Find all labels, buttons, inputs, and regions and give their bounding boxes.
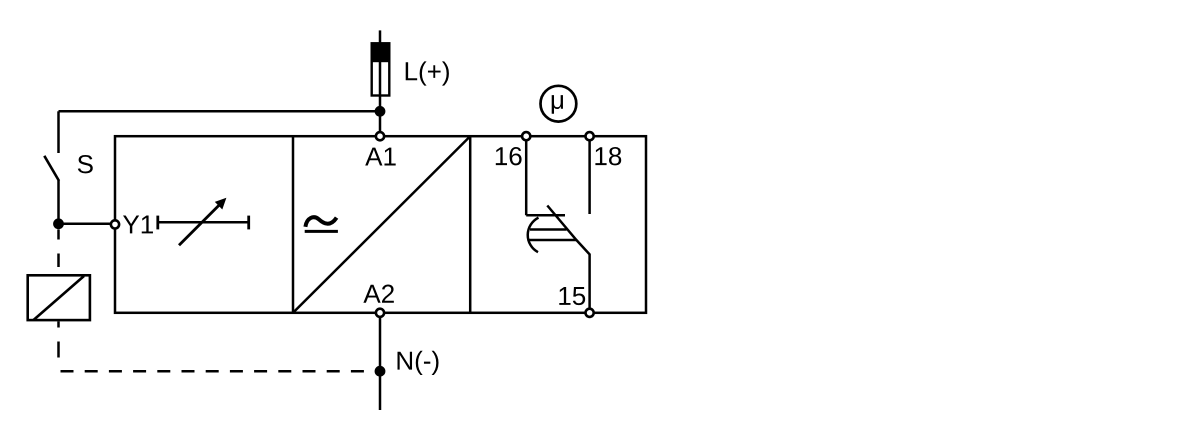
wire from A2 to node N and stub below: [379, 313, 382, 410]
label 18: [595, 147, 621, 165]
label A1: [365, 148, 395, 166]
dashed wire from node Y down to sensor: [57, 230, 60, 275]
contact 18 lead: [588, 136, 591, 214]
node N junction dot: [375, 366, 386, 377]
wire down to switch S: [57, 111, 60, 153]
relay box outline: [115, 136, 646, 313]
variable resistor right tick: [247, 216, 250, 230]
terminal 18 circle: [586, 132, 594, 140]
AC/DC symbol tilde: [305, 217, 336, 227]
wire from switch to node Y: [57, 181, 60, 224]
label S: [78, 155, 93, 173]
dashed wire from sensor down: [57, 322, 60, 372]
label N(-): [398, 351, 439, 375]
variable resistor arrow shaft: [179, 205, 220, 246]
fuse F1 top lead wire: [379, 30, 382, 44]
terminal 15 circle: [586, 309, 594, 317]
variable resistor left tick: [156, 216, 159, 230]
contact 16 fixed contact line: [526, 214, 565, 217]
fuse F1 body outline: [372, 43, 390, 95]
terminal 16 circle: [522, 132, 530, 140]
sensor B1 diagonal: [34, 276, 85, 320]
label 15: [559, 287, 585, 305]
terminal A1 circle: [376, 132, 384, 140]
variable resistor arrowhead: [215, 198, 227, 210]
diagonal of power section: [293, 136, 470, 313]
delay device arc: [528, 218, 539, 253]
fuse F1 filled head: [371, 42, 391, 62]
label Y1: [123, 216, 153, 234]
delay device hatch line 2: [529, 239, 576, 242]
label L(+): [406, 61, 449, 85]
terminal Y1 circle: [111, 220, 119, 228]
AC/DC symbol underline: [305, 230, 338, 233]
wire from node L to switch branch: [59, 110, 381, 113]
switch S blade: [44, 156, 59, 181]
label A2: [363, 285, 393, 303]
variable resistor horizontal line: [158, 221, 249, 224]
terminal A2 circle: [376, 309, 384, 317]
sensor B1 box: [28, 275, 90, 320]
contact 16 lead: [525, 136, 528, 215]
fuse F1 center wire through body down to node L: [379, 61, 382, 133]
timing function circle: [541, 86, 577, 122]
node Y junction dot: [53, 218, 64, 229]
label 16: [496, 147, 522, 165]
dashed wire from sensor to node N: [61, 370, 376, 373]
wire from node Y to terminal Y1: [59, 223, 113, 226]
delay device hatch line 1: [530, 228, 567, 231]
node L junction dot: [375, 106, 386, 117]
label mu: [552, 95, 563, 114]
divider 1: [292, 136, 295, 313]
contact blade and lead to 15: [547, 206, 589, 313]
divider 2: [469, 136, 472, 313]
